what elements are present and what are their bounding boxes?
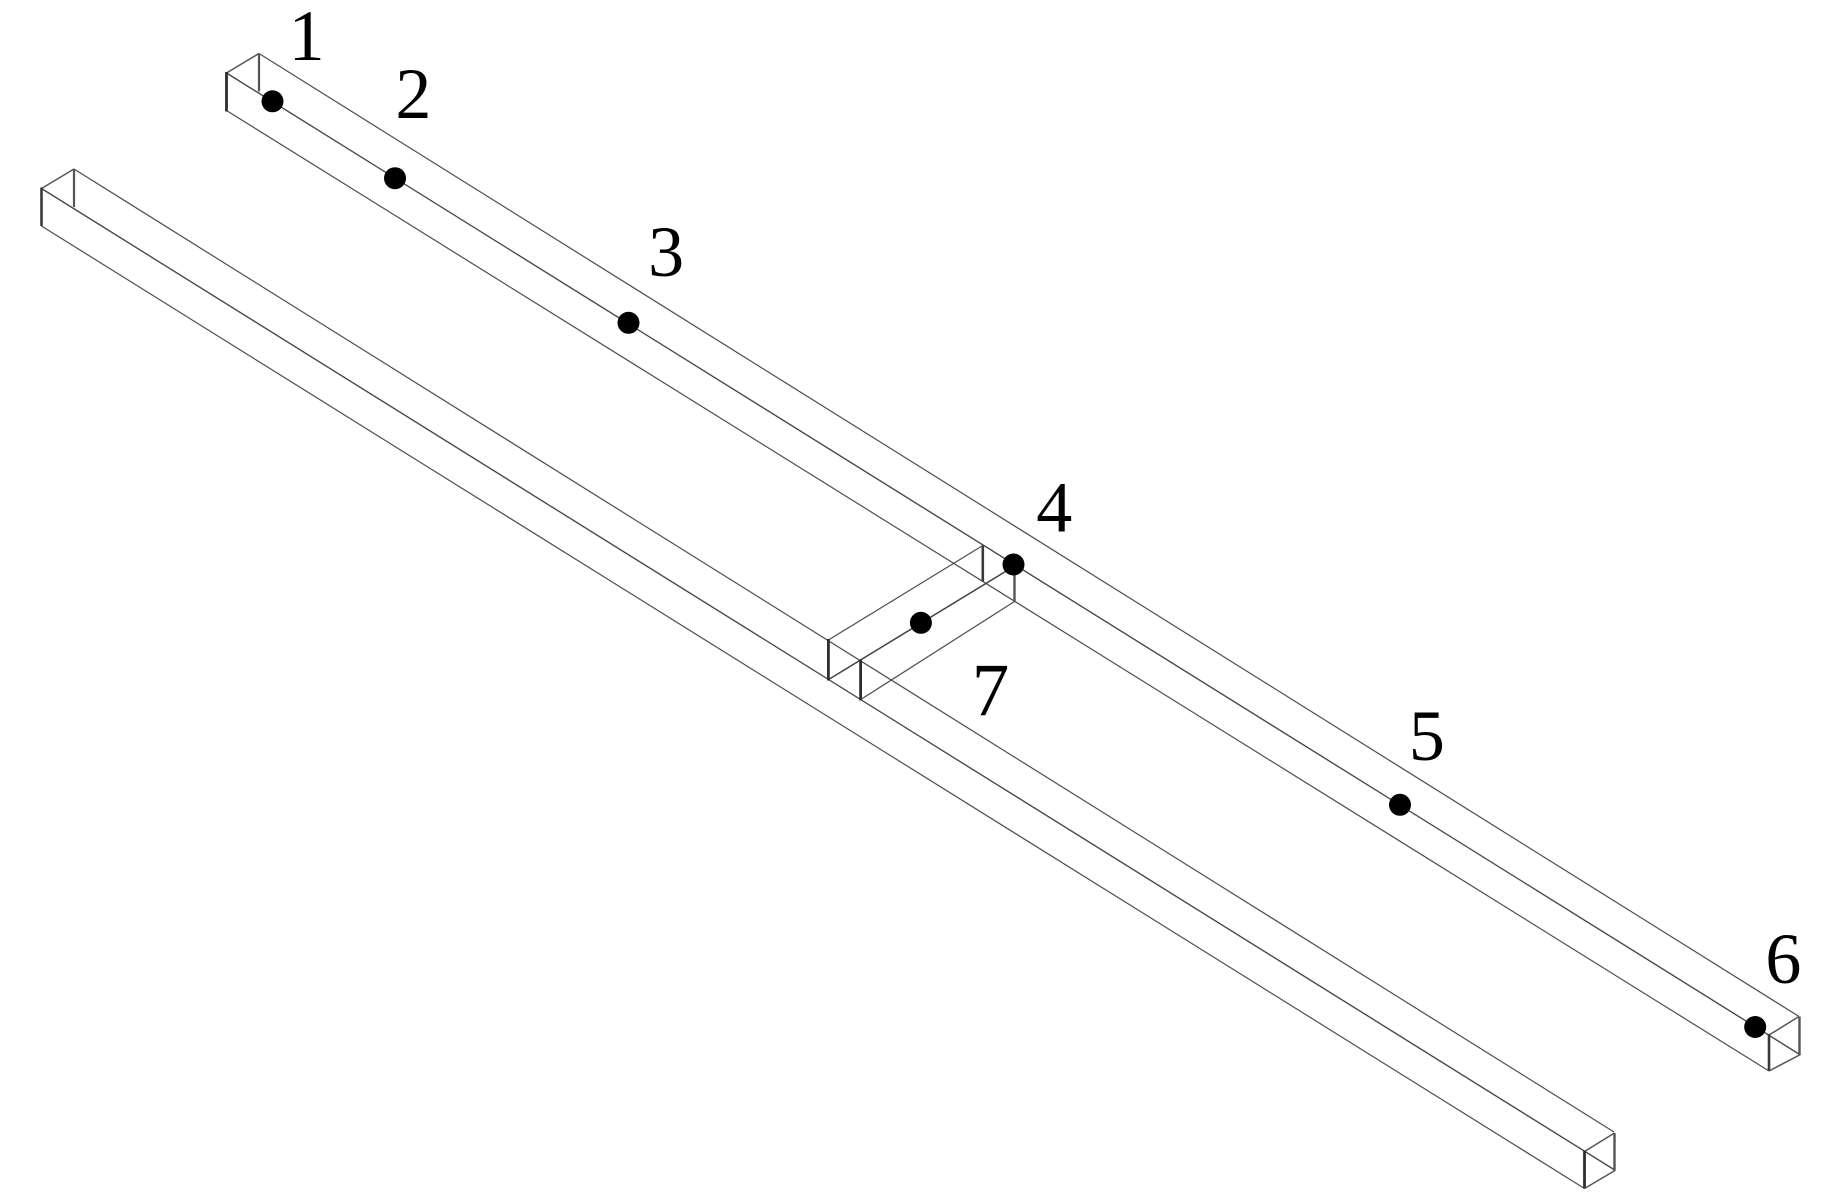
upper rail tube: bottom-near long edge: [227, 111, 1770, 1072]
lower rail near end cap: left vertical edge: [40, 188, 43, 227]
lower rail tube: bottom-near long edge: [42, 226, 1585, 1189]
svg-text:3: 3: [648, 212, 684, 292]
measurement point 6 dot: [1744, 1016, 1766, 1038]
measurement point 2 dot: [384, 167, 406, 189]
lower rail far end cap: top edge: [1585, 1133, 1615, 1152]
svg-text:7: 7: [972, 649, 1010, 732]
lower rail far end cap: left vertical edge: [1583, 1151, 1586, 1189]
measurement point 1 dot: [262, 90, 284, 112]
upper rail far end cap: bottom edge: [1769, 1055, 1800, 1071]
measurement point 4 dot: [1003, 554, 1025, 576]
upper rail near end cap: top edge: [227, 54, 260, 74]
svg-text:1: 1: [289, 0, 325, 76]
lower rail tube: top-far long edge: [74, 169, 1614, 1132]
lower rail near end cap: right vertical edge: [73, 169, 75, 207]
cross member: bottom-far long edge: [861, 602, 1015, 700]
cross member right end: far vertical edge: [1013, 566, 1015, 602]
measurement point 7 dot: [910, 612, 932, 634]
measurement point 5 dot: [1389, 794, 1411, 816]
upper rail tube: top-far long edge: [259, 54, 1799, 1017]
cross member right end: near vertical edge: [981, 546, 984, 582]
svg-text:6: 6: [1765, 919, 1801, 999]
lower rail far end cap: bottom edge: [1585, 1171, 1616, 1189]
lower rail tube: middle long edge (top-near/bottom-far collinear): [42, 189, 1616, 1171]
lower rail far end cap: right vertical edge: [1613, 1133, 1615, 1171]
svg-text:2: 2: [395, 54, 431, 134]
cross member left end: near vertical edge: [827, 639, 830, 681]
upper rail tube: middle long edge (top-near/bottom-far collinear): [227, 73, 1801, 1055]
svg-text:4: 4: [1036, 468, 1072, 548]
cross member left end: far vertical edge: [859, 660, 862, 701]
upper rail near end cap: right vertical edge: [258, 54, 260, 92]
upper rail near end cap: left vertical edge: [225, 72, 228, 112]
cross member: top-near long edge: [828, 546, 982, 641]
svg-text:5: 5: [1409, 696, 1445, 776]
cross member: middle long edge: [828, 566, 1014, 680]
upper rail far end cap: right vertical edge: [1798, 1017, 1800, 1056]
upper rail far end cap: top edge: [1769, 1017, 1799, 1036]
upper rail far end cap: left vertical edge: [1768, 1034, 1771, 1071]
measurement point 3 dot: [618, 312, 640, 334]
lower rail near end cap: top edge: [42, 169, 75, 189]
